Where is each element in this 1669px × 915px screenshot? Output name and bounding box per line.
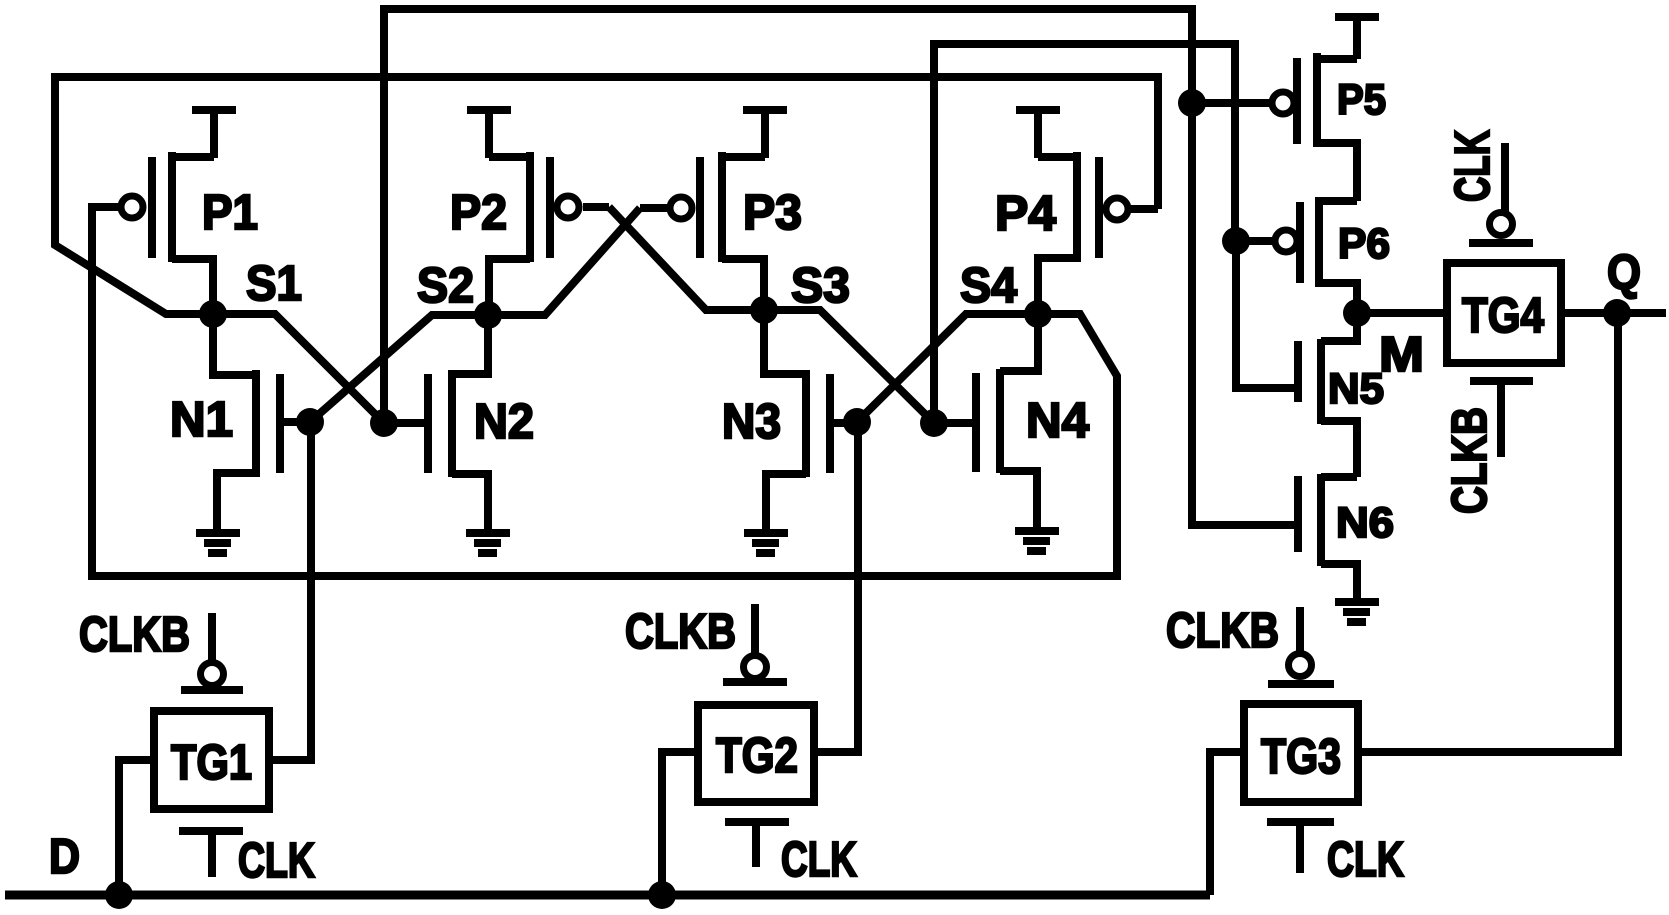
wire TG3 left lead to D [1210, 752, 1244, 895]
transistor P1 [121, 152, 214, 314]
TG2 CLK control (bar) [725, 822, 789, 867]
svg-text:P1: P1 [202, 186, 258, 240]
junction D at TG1 [105, 881, 133, 909]
svg-text:TG2: TG2 [716, 729, 798, 783]
vdd symbol above P2 [467, 110, 511, 158]
transmission gate TG3 box [1244, 704, 1358, 802]
svg-text:P3: P3 [743, 186, 802, 240]
vdd symbol above P5 [1335, 17, 1379, 59]
transistor P2 [489, 152, 609, 315]
wire TG1 left lead to D [119, 760, 154, 895]
wire P5 gate lead [1192, 99, 1270, 107]
transmission gate TG4 box [1447, 263, 1561, 363]
TG4 CLK control (bubble) [1469, 143, 1533, 243]
svg-text:CLK: CLK [1446, 130, 1500, 202]
wire TG4 output to Q [1561, 309, 1666, 317]
svg-text:P5: P5 [1337, 76, 1386, 124]
TG1 CLKB control (bubble) [181, 613, 243, 690]
transmission gate TG2 box [698, 705, 814, 802]
svg-text:N3: N3 [722, 395, 781, 449]
transistor N4 [934, 314, 1038, 530]
transistor N1 [213, 314, 310, 532]
svg-text:TG1: TG1 [171, 736, 252, 790]
svg-text:N2: N2 [474, 395, 534, 449]
wire S1 to N2 gate (diagonal) [213, 314, 384, 423]
svg-text:CLK: CLK [781, 833, 857, 887]
svg-text:N6: N6 [1336, 499, 1394, 547]
TG2 CLKB control (bubble) [723, 604, 787, 682]
wire S3 to P2 gate (diagonal) [609, 207, 764, 310]
wire N5 gate [1236, 241, 1298, 388]
vdd symbol above P3 [743, 110, 787, 158]
TG4 CLKB control (bar) [1470, 381, 1533, 457]
svg-text:P6: P6 [1338, 220, 1390, 268]
wire S3 to N4 gate (diagonal) [764, 310, 934, 423]
node S2 junction [474, 301, 502, 329]
svg-text:S2: S2 [417, 259, 474, 313]
svg-text:P4: P4 [995, 187, 1056, 241]
node S3 junction [750, 296, 778, 324]
wire Q to TG3 output [1358, 313, 1618, 752]
wire P6 gate lead [1236, 237, 1272, 245]
svg-text:CLK: CLK [1327, 833, 1404, 887]
svg-text:TG4: TG4 [1462, 289, 1544, 343]
wire rail C (S1 to P4 gate) [55, 77, 1158, 314]
ground under N2 [466, 533, 510, 553]
ground under N6 [1335, 602, 1379, 622]
node S4 junction [1024, 300, 1052, 328]
wire feedback: P1 gate, left vertical, bottom rail, right vertical, S4 diagonal [92, 207, 1117, 576]
junction N3 gate [843, 408, 871, 436]
vdd symbol above P1 [192, 110, 236, 158]
wire S4 to N3 gate (diagonal) [857, 314, 1038, 422]
svg-text:S1: S1 [246, 257, 302, 311]
node S1 junction [199, 300, 227, 328]
TG3 CLK control (bar) [1267, 822, 1334, 873]
junction N4 gate [920, 409, 948, 437]
transistor P6 [1275, 197, 1357, 313]
TG1 CLK control (bar) [179, 831, 243, 877]
svg-text:TG3: TG3 [1261, 730, 1341, 784]
transistor N3 [764, 310, 857, 532]
transmission gate TG1 box [154, 711, 269, 809]
svg-text:Q: Q [1607, 246, 1641, 300]
junction D at TG2 [648, 881, 676, 909]
transistor P4 [1038, 152, 1158, 314]
wire D rail [5, 891, 1210, 900]
node M junction [1343, 299, 1371, 327]
svg-text:N5: N5 [1328, 365, 1384, 413]
svg-text:M: M [1379, 328, 1424, 382]
ground under N3 [744, 533, 788, 553]
svg-text:CLKB: CLKB [79, 608, 190, 662]
svg-text:CLKB: CLKB [1166, 604, 1279, 658]
transistor P5 [1272, 53, 1357, 201]
svg-text:CLK: CLK [238, 834, 315, 888]
node Q junction [1603, 299, 1631, 327]
svg-text:CLKB: CLKB [1443, 407, 1497, 514]
wire rail A (S1 net to P5/N6 gates) [384, 9, 1192, 423]
transistor P3 [640, 152, 765, 310]
svg-text:D: D [49, 830, 80, 884]
ground under N4 [1015, 531, 1059, 551]
svg-text:S3: S3 [791, 259, 850, 313]
ground under N1 [196, 533, 240, 553]
wire N6 gate [1192, 103, 1298, 525]
wire S2 to N1 gate (diagonal) [310, 315, 488, 422]
svg-text:P2: P2 [450, 186, 507, 240]
transistor N6 [1298, 474, 1357, 602]
junction N2 gate [370, 409, 398, 437]
junction P6 gate [1222, 227, 1250, 255]
junction N1 gate [296, 408, 324, 436]
svg-text:S4: S4 [960, 259, 1017, 313]
svg-text:CLKB: CLKB [625, 605, 736, 659]
wire TG2 right lead to N3 gate node [814, 423, 858, 752]
wire TG1 right lead to N1 gate node [269, 422, 311, 760]
vdd symbol above P4 [1016, 110, 1060, 158]
svg-text:N4: N4 [1026, 394, 1089, 448]
wire S2 to P3 gate (diagonal) [488, 208, 640, 315]
junction P5 gate [1178, 89, 1206, 117]
wire TG2 left lead to D [662, 752, 698, 895]
wire rail B (S3 net to P6/N5 gates) [934, 44, 1235, 423]
transistor N2 [384, 315, 488, 532]
wire M node to TG4 [1357, 309, 1447, 317]
TG3 CLKB control (bubble) [1268, 607, 1334, 684]
transistor N5 [1298, 313, 1357, 477]
svg-text:N1: N1 [170, 393, 233, 447]
